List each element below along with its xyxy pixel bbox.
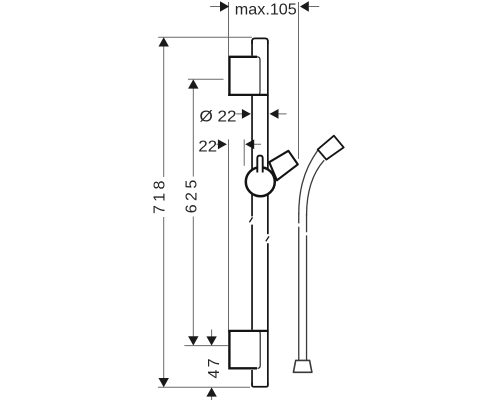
svg-text:max.105: max.105: [235, 2, 297, 19]
svg-text:718: 718: [152, 180, 169, 214]
svg-text:Ø 22: Ø 22: [200, 109, 237, 126]
svg-text:22: 22: [198, 139, 217, 156]
svg-text:625: 625: [184, 180, 201, 214]
svg-text:47: 47: [206, 358, 223, 378]
